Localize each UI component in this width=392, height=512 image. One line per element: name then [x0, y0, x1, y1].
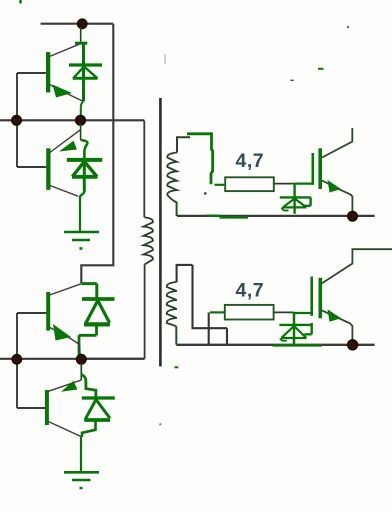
stray dot top right: [347, 26, 349, 28]
node D emitter 2: [348, 340, 358, 350]
node E left: [12, 355, 21, 364]
node A top junction: [78, 19, 87, 28]
wire Q3 base lead: [17, 312, 46, 314]
wire R1 to gate: [273, 183, 313, 185]
label R1 value 4,7: [236, 150, 265, 172]
wire Q1 base lead: [17, 72, 46, 74]
node B output: [76, 115, 86, 125]
wire D1/Q1 emitter to node B: [81, 102, 83, 117]
node C emitter 1: [348, 211, 358, 221]
resistor R2: [225, 305, 274, 320]
transformer primary winding: [143, 121, 152, 359]
stray dot resistor 1: [204, 192, 207, 195]
svg-text:4,7: 4,7: [236, 150, 265, 172]
wire primary bottom to node F: [86, 358, 145, 360]
wire Q4 collector to ground: [80, 437, 82, 472]
diode D1: [69, 43, 102, 101]
wire mid rail upper: [0, 119, 144, 121]
transformer secondary 1: [167, 137, 190, 216]
wire left bus upper: [17, 73, 46, 167]
wire secondary 2 top to rail 2: [192, 328, 228, 345]
node B left: [12, 116, 22, 126]
resistor R1: [225, 177, 274, 191]
core faint mark: [164, 54, 166, 64]
wire gate feed 2: [209, 312, 225, 344]
stray dot mid core: [159, 423, 161, 425]
ground lower: [64, 472, 99, 488]
stray mark green top right: [318, 68, 324, 70]
zener D5: [280, 184, 311, 214]
transistor Q1: [46, 44, 83, 101]
stray mark below secondary 2: [175, 366, 179, 368]
transistor Q2: [46, 130, 80, 196]
wire secondary 1 to resistor R1: [187, 134, 224, 185]
svg-text:4,7: 4,7: [236, 280, 265, 302]
wire emitter rail 1: [177, 216, 375, 218]
wire node A to diode D1: [80, 27, 82, 42]
wire emitter rail 2: [176, 344, 374, 347]
zener D6: [279, 313, 312, 345]
transformer secondary 2: [167, 265, 193, 345]
wire Q2 collector to ground: [79, 202, 81, 232]
wire top supply rail: [41, 23, 114, 25]
node F output: [77, 355, 87, 365]
wire mid rail lower: [0, 358, 145, 360]
stray mark corner: [19, 0, 21, 4]
diode D3: [79, 284, 115, 355]
wire node B to diode D2: [81, 124, 88, 158]
diode D4: [82, 375, 115, 438]
IGBT Q5: [313, 128, 353, 211]
ground upper: [64, 232, 99, 249]
IGBT Q6: [312, 249, 392, 340]
wire node F to Q4/D4: [80, 363, 82, 380]
transistor Q4: [45, 380, 81, 437]
label R2 value 4,7: [236, 280, 265, 302]
diode D2: [67, 160, 103, 202]
wire left bus lower: [17, 313, 45, 408]
wire supply drop to lower bridge: [81, 24, 113, 284]
transistor Q3: [46, 284, 81, 356]
wire R2 to gate: [274, 311, 312, 314]
stray dash mid right: [291, 79, 294, 81]
transformer core: [159, 98, 162, 367]
